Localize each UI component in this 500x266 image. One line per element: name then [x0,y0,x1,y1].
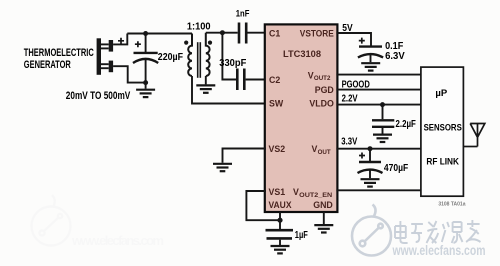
wire TEG bottom lead [113,66,146,82]
transformer phase dot primary [184,41,188,45]
node VAUX junction [277,218,282,223]
svg-text:20mV TO 500mV: 20mV TO 500mV [66,90,131,102]
svg-text:www.elecfans.com: www.elecfans.com [71,233,164,248]
svg-text:220µF: 220µF [158,52,183,63]
IC U1 LTC3108 [265,24,338,212]
svg-text:SW: SW [269,99,284,109]
wire TEG top lead [113,34,127,45]
svg-text:5V: 5V [342,23,353,34]
wire VOUT2_EN to uP [336,189,421,191]
svg-text:OUT2: OUT2 [314,75,331,82]
wire VAUX stem [279,212,281,220]
wire VS2 to ground [223,149,267,163]
node VLDO junction [380,102,385,107]
transformer core [197,42,199,78]
ground 470uF [361,179,380,186]
svg-text:PGOOD: PGOOD [342,80,370,91]
node secondary/caps junction [220,30,225,35]
ground 1uF [271,246,290,253]
svg-text:6.3V: 6.3V [385,51,405,62]
svg-text:VS2: VS2 [269,144,286,154]
svg-text:V: V [293,187,299,197]
wire PGD to uP [336,89,421,91]
svg-text:1µF: 1µF [295,230,308,241]
ground TEG rail [145,83,147,89]
svg-text:SENSORS: SENSORS [424,123,462,134]
svg-text:µP: µP [435,88,447,99]
wire VSTORE [336,33,371,46]
transformer phase dot secondary [208,41,212,45]
svg-text:GENERATOR: GENERATOR [24,59,71,71]
wire secondary top to node [206,32,223,34]
capacitor 1uF [279,220,281,229]
svg-text:LTC3108: LTC3108 [283,49,321,59]
svg-text:3.3V: 3.3V [341,136,357,147]
wire GND pin stem [323,212,325,224]
transformer primary winding [188,34,192,77]
antenna [470,124,485,147]
svg-text:GND: GND [313,200,333,210]
svg-text:2.2µF: 2.2µF [396,119,416,130]
svg-text:www.elecfans.com: www.elecfans.com [392,243,486,258]
watermark faint left tile [32,195,165,248]
svg-text:V: V [308,70,314,80]
wire top rail to transformer [127,33,192,35]
thermoelectric generator TEG [97,38,114,75]
node junction bottom rail / 220uF [143,80,148,85]
svg-text:VAUX: VAUX [269,200,292,210]
ground 2.2uF [373,135,392,142]
watermark logo circle bottom-right [352,205,391,256]
svg-text:330pF: 330pF [219,58,246,69]
wire VOUT2 to uP [336,74,421,76]
wire VS1 loop [246,191,280,220]
ground 0.1F [361,63,380,70]
ground transformer secondary [205,76,207,84]
transformer secondary winding [206,33,210,76]
svg-text:PGD: PGD [315,85,334,95]
capacitor 2.2uF [382,105,384,120]
capacitor C 220uF [145,34,147,53]
ground GND pin [314,225,333,232]
svg-text:RF LINK: RF LINK [426,156,459,167]
node VOUT junction [368,146,373,151]
capacitor 0.1F [359,38,365,44]
wire antenna feed [463,146,477,148]
svg-text:VSTORE: VSTORE [300,28,334,38]
node junction top rail / 220uF [143,31,148,36]
svg-text:470µF: 470µF [384,163,408,174]
plus sign TEG [118,38,124,44]
watermark chinese glyphs [395,220,481,243]
capacitor 470uF [369,149,371,161]
svg-text:OUT2_EN: OUT2_EN [299,192,333,199]
svg-text:V: V [312,144,318,154]
svg-text:VLDO: VLDO [309,99,334,109]
svg-text:2.2V: 2.2V [342,94,358,105]
wire VLDO to uP [336,104,421,106]
svg-text:1nF: 1nF [236,9,250,20]
svg-text:C2: C2 [269,75,280,85]
wire VOUT to uP [336,148,421,150]
svg-text:VS1: VS1 [269,187,286,197]
svg-text:C1: C1 [269,28,280,38]
svg-text:THERMOELECTRIC: THERMOELECTRIC [24,47,94,59]
svg-text:1:100: 1:100 [187,21,211,32]
wire node down to C2 branch [222,33,236,80]
ground VS2 [213,164,232,171]
uP box [421,67,464,196]
svg-text:3108 TA01a: 3108 TA01a [438,202,465,208]
wire primary bottom to SW [192,76,266,104]
svg-text:OUT: OUT [318,149,331,156]
